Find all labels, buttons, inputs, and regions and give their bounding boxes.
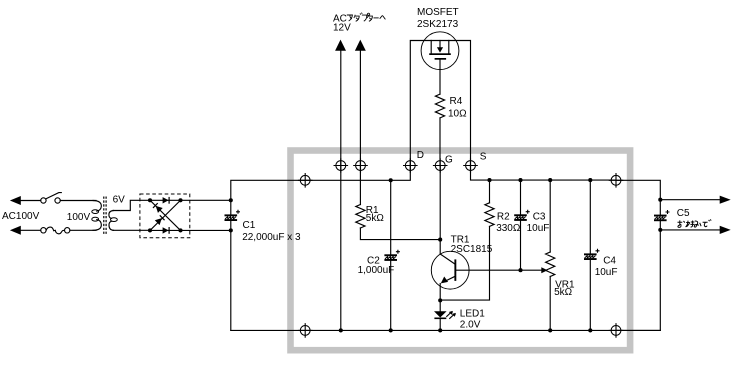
- wire drain-source loop: [410, 41, 470, 166]
- label ACアダプターへ: [333, 13, 385, 25]
- junction bridge TL: [148, 198, 152, 202]
- wire R2 leads (down, across to emitter): [440, 180, 489, 300]
- svg-text:LED1: LED1: [460, 308, 485, 319]
- svg-text:C4: C4: [603, 256, 616, 267]
- wire secondary top to bridge: [113, 200, 150, 210]
- wire AC top lead: [21, 200, 41, 202]
- arrow to AC adapter 2: [355, 40, 366, 51]
- terminal GND in: [298, 323, 313, 338]
- AC adapter case outline: [291, 151, 631, 351]
- junction bridge BR: [178, 228, 182, 232]
- wire G terminal down to TR1 collector: [439, 166, 441, 255]
- transformer T primary winding: [92, 201, 102, 231]
- capacitor C1 plates: [225, 210, 241, 221]
- MOSFET 2SK2173 symbol: [421, 32, 459, 70]
- capacitor C3 plates: [514, 210, 530, 221]
- junction C3 top: [518, 178, 522, 182]
- arrow to AC adapter 1: [335, 40, 346, 51]
- junction LED-gnd: [438, 328, 442, 332]
- wire fuse to transformer primary bottom: [70, 229, 96, 231]
- junction C1 bottom: [229, 228, 233, 232]
- terminal adapter out 1: [334, 158, 349, 173]
- switch SW contacts and lever: [41, 193, 62, 204]
- resistor R2: [485, 203, 494, 227]
- bridge diagonal wire TL-BR: [150, 200, 181, 230]
- svg-text:AC100V: AC100V: [2, 211, 40, 222]
- junction VR1 top: [548, 178, 552, 182]
- svg-text:C3: C3: [533, 212, 546, 223]
- svg-text:G: G: [445, 154, 453, 165]
- wire adapter output 1 (down to ground rail): [340, 51, 342, 331]
- junction emitter node: [438, 298, 442, 302]
- svg-text:S: S: [480, 151, 487, 162]
- bridge diagonal wire BL-TR: [150, 200, 181, 230]
- svg-text:10uF: 10uF: [527, 223, 550, 234]
- wire VR1 column: [549, 180, 551, 330]
- label お好みで: [678, 219, 712, 227]
- svg-text:5kΩ: 5kΩ: [554, 287, 573, 298]
- bridge diode D4 on BL-TR diagonal: [155, 215, 165, 225]
- wire emitter down: [439, 284, 441, 312]
- bridge top rail wire: [150, 199, 181, 201]
- transformer T secondary winding: [109, 211, 117, 231]
- junction C4 top: [588, 178, 592, 182]
- svg-text:2SC1815: 2SC1815: [451, 244, 493, 255]
- svg-text:10uF: 10uF: [595, 267, 618, 278]
- bridge diode top (D1): [163, 197, 170, 204]
- fuse F (circles with S-curve): [41, 227, 70, 234]
- svg-text:R2: R2: [497, 212, 510, 223]
- terminal G: [433, 158, 448, 173]
- junction C2 top on V+ rail: [389, 178, 393, 182]
- junction bridge BL: [148, 228, 152, 232]
- junction adapter1-gnd: [339, 328, 343, 332]
- capacitor C5 plates: [654, 210, 670, 221]
- wire S rail: [471, 166, 617, 181]
- svg-text:D: D: [417, 150, 424, 161]
- svg-text:C5: C5: [677, 208, 690, 219]
- junction R2 top: [487, 178, 491, 182]
- wire TR1 base to VR1 wiper: [456, 269, 541, 271]
- svg-text:MOSFET: MOSFET: [417, 7, 459, 18]
- svg-text:100V: 100V: [67, 212, 91, 223]
- wire C4 column: [589, 180, 591, 330]
- resistor R1: [356, 205, 365, 229]
- transformer T core: [104, 197, 106, 235]
- junction C2-gnd: [389, 328, 393, 332]
- wire bridge to C1 bottom: [181, 229, 231, 231]
- wire C5 column / output minus riser: [659, 200, 661, 331]
- terminal V+ in: [298, 173, 313, 188]
- wire switch to transformer primary top: [60, 200, 96, 202]
- bridge diode bottom (D2): [163, 227, 170, 234]
- svg-text:R4: R4: [450, 96, 463, 107]
- junction gate node: [438, 238, 442, 242]
- svg-text:5kΩ: 5kΩ: [366, 213, 385, 224]
- svg-text:10Ω: 10Ω: [448, 108, 467, 119]
- terminal S: [463, 158, 478, 173]
- arrow output minus: [720, 226, 731, 234]
- arrow output plus: [720, 196, 731, 204]
- junction base-C3 node: [518, 268, 522, 272]
- bridge rectifier dashed outline: [140, 194, 190, 238]
- wire LED to ground rail: [439, 319, 441, 330]
- wire gate lead: [439, 60, 441, 166]
- svg-text:C1: C1: [243, 220, 256, 231]
- potentiometer VR1: [546, 252, 555, 277]
- terminal V+ out: [609, 173, 624, 188]
- resistor R4: [435, 94, 444, 118]
- junction C4-gnd: [588, 328, 592, 332]
- capacitor C4 plates: [584, 249, 600, 260]
- junction C1 top: [229, 198, 233, 202]
- wire output minus: [616, 230, 720, 331]
- junction bridge TR: [178, 198, 182, 202]
- svg-text:6V: 6V: [113, 194, 126, 205]
- junction C5 top: [658, 198, 662, 202]
- wire bridge to C1 top: [181, 199, 231, 201]
- wire adapter output 2 (down to R1): [359, 51, 361, 205]
- node AC100V line-bottom arrow: [10, 226, 21, 235]
- wire C1 riser and V+ feed to case: [231, 166, 410, 331]
- junction C5 bottom: [658, 228, 662, 232]
- wire R1 bottom to gate node: [360, 228, 440, 240]
- node AC100V line-top arrow: [10, 196, 21, 205]
- junction VR1-gnd: [548, 328, 552, 332]
- terminal GND out: [609, 323, 624, 338]
- terminal D: [403, 158, 418, 173]
- svg-text:12V: 12V: [333, 23, 351, 34]
- bridge diode D3 on TL-BR diagonal: [153, 203, 163, 213]
- wire AC bottom lead: [21, 229, 41, 231]
- wire secondary bottom to bridge: [113, 229, 150, 231]
- LED1: [434, 311, 456, 319]
- transistor TR1 2SC1815: [431, 251, 469, 289]
- bridge bottom rail wire: [150, 229, 181, 231]
- wire ground rail: [231, 329, 661, 331]
- wire C3 column: [520, 180, 522, 270]
- svg-text:22,000uF x 3: 22,000uF x 3: [242, 232, 301, 243]
- wire C2 column: [390, 180, 392, 330]
- terminal adapter out 2: [353, 158, 368, 173]
- capacitor C2 plates: [384, 250, 400, 261]
- svg-text:330Ω: 330Ω: [496, 223, 521, 234]
- svg-text:2.0V: 2.0V: [460, 319, 481, 330]
- VR1 wiper arrow: [541, 267, 547, 273]
- svg-text:1,000uF: 1,000uF: [358, 265, 395, 276]
- svg-text:2SK2173: 2SK2173: [417, 19, 459, 30]
- wire output plus: [616, 180, 720, 199]
